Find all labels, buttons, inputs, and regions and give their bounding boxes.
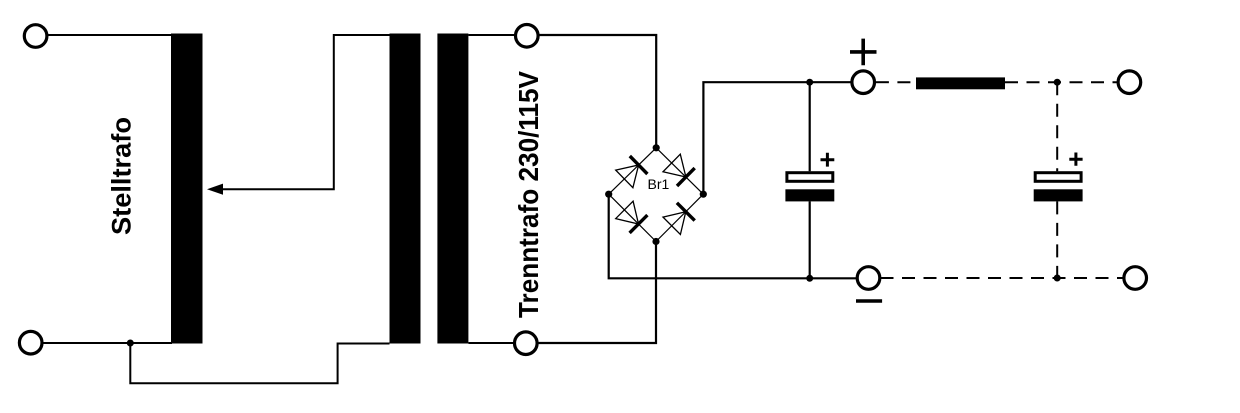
junction [806,79,813,86]
wire [43,342,173,344]
wire [48,34,173,36]
svg-text:Stelltrafo: Stelltrafo [107,117,137,235]
capacitor C1 polarity + [821,153,835,167]
node bridge left [605,191,612,198]
capacitor C2 lead bottom (dashed) [1056,201,1058,278]
terminal X2 (mains input bottom) [19,331,42,354]
capacitor C2 top plate [1035,173,1081,182]
terminal X7 (DC + outer) [1118,71,1141,94]
capacitor C1 bottom plate [785,189,834,201]
capacitor C1 top plate [787,173,833,182]
capacitor C2 bottom plate [1034,189,1083,201]
wire [130,343,389,383]
bridge rectifier Br1 diamond [609,148,704,242]
wire [537,242,656,344]
wire [221,35,390,189]
wire [609,194,857,278]
svg-text:Br1: Br1 [648,176,670,192]
node bridge top [653,144,660,151]
capacitor C1 lead bottom [809,201,811,278]
diode D3 (left to bottom) [616,201,648,233]
diode D2 (top to right) [663,154,695,186]
wire [538,35,656,148]
terminal X1 (mains input top) [24,25,47,48]
transformer T2 secondary winding (Trenntrafo) [437,34,468,344]
svg-text:Trenntrafo 230/115V: Trenntrafo 230/115V [513,70,544,318]
junction [1054,275,1061,282]
node - output [856,299,882,303]
capacitor C2 lead top (dashed) [1056,82,1058,171]
wire (dashed, + rail to resistor) [876,81,916,83]
terminal X6 (DC - inner) [857,267,880,290]
terminal X8 (DC - outer) [1124,267,1147,290]
junction [1054,79,1061,86]
wire [468,34,515,36]
resistor (series, bar style) [916,77,1005,89]
wire (dashed) [1005,81,1117,83]
capacitor C1 lead top [809,82,811,171]
terminal X5 (DC + inner) [852,71,875,94]
transformer T2 primary winding (Trenntrafo) [390,34,421,344]
terminal X3 (secondary top) [516,25,539,48]
node bridge right [700,191,707,198]
node + output [850,39,877,66]
wire (dashed, bottom rail) [881,277,1123,279]
wire [468,342,514,344]
junction [127,340,134,347]
wire [703,82,851,194]
capacitor C2 polarity + [1069,153,1082,166]
diode D4 (bottom to right) [663,203,695,235]
terminal X4 (secondary bottom) [515,332,538,355]
junction [806,275,813,282]
diode D1 (left to top) [616,156,648,188]
node bridge bottom [652,238,659,245]
transformer T1 winding (Stelltrafo) [171,34,203,344]
wiper arrow of Stelltrafo [207,184,223,195]
